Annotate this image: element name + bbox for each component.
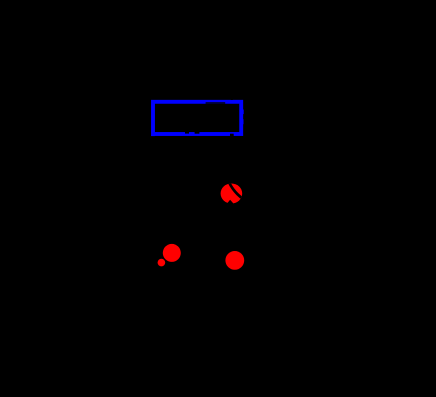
component R1 top ink over blue box top edge (black thin notch) — [206, 102, 226, 103]
wire (black, invisible) lower-left branch — [140, 253, 172, 270]
blue box right-edge freehand wobble — [243, 110, 244, 115]
transistor Q1 emitter arrowhead (black, crossing red dot bottom) — [226, 200, 234, 205]
component R1 body ink over blue box bottom edge (black notch) — [185, 132, 189, 134]
small node dot (red) below-left — [158, 259, 166, 267]
wire (black, invisible) collector lead from box down to transistor — [231, 136, 233, 186]
node dot (red) at transistor collector junction — [221, 184, 243, 204]
wire (black, invisible) from supply rail into component box — [231, 80, 233, 100]
component R1 lead crossing blue box bottom edge (black notch) — [230, 134, 234, 136]
junction dot (red) at emitter node — [225, 251, 244, 270]
wire (black, invisible) base lead to transistor — [140, 197, 218, 199]
annotation highlight box (blue) around component R1 — [153, 102, 241, 134]
component R1 body ink over blue box bottom edge (second black notch) — [195, 132, 200, 134]
blue box bottom-left corner overshoot — [151, 134, 155, 137]
wire (black, invisible) emitter lead down from transistor — [234, 205, 236, 262]
junction dot (red) at left node — [163, 244, 181, 262]
